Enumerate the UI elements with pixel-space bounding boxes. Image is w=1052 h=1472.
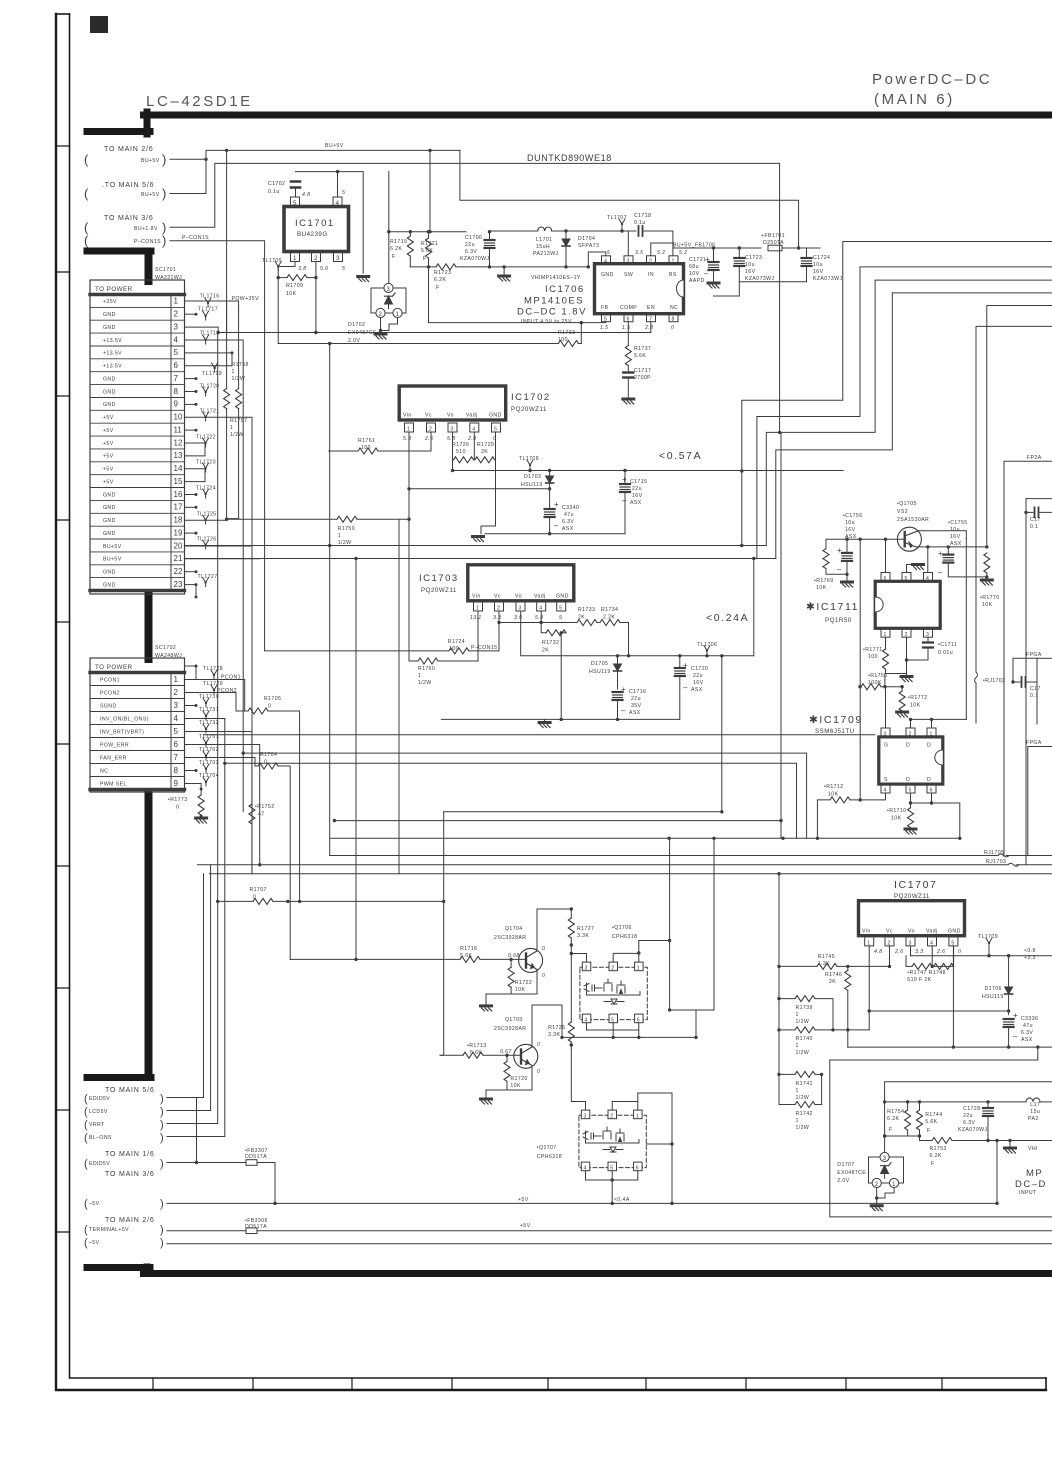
svg-text:R1734: R1734 — [601, 607, 618, 613]
svg-text:DD517A: DD517A — [245, 1154, 267, 1160]
corner black square — [90, 16, 108, 33]
svg-text:BU+5V: BU+5V — [103, 557, 122, 563]
svg-text:+5V: +5V — [520, 1223, 531, 1229]
svg-text:Vin: Vin — [862, 929, 871, 935]
svg-text:3: 3 — [627, 259, 630, 265]
svg-text:VS2: VS2 — [897, 509, 908, 515]
svg-text:TL1709: TL1709 — [978, 934, 998, 940]
svg-text:–5V: –5V — [89, 1240, 100, 1246]
wire Q1704 collector up — [537, 909, 571, 944]
svg-text:KZA073WJ: KZA073WJ — [745, 276, 774, 282]
Q1707 pin 2 — [608, 1110, 617, 1119]
svg-text:BU+5V: BU+5V — [141, 192, 160, 198]
svg-text:6: 6 — [174, 361, 179, 370]
svg-text:18: 18 — [174, 516, 183, 525]
svg-text:4: 4 — [336, 200, 340, 207]
svg-text:Q1703: Q1703 — [505, 1017, 523, 1023]
svg-text:•R1771: •R1771 — [863, 647, 883, 653]
capacitor C1755 10u 16V ASX — [938, 520, 987, 577]
svg-text:5: 5 — [342, 190, 345, 196]
svg-text:17: 17 — [174, 503, 183, 512]
resistor R1739 1 1/2W — [777, 996, 833, 1030]
svg-text:D1704: D1704 — [578, 236, 595, 242]
wire pin6 up to Q1705 base node — [885, 539, 887, 572]
svg-text:22u: 22u — [693, 673, 703, 679]
svg-text:5: 5 — [174, 727, 179, 736]
svg-text:BL–ONS: BL–ONS — [89, 1135, 112, 1141]
svg-text:INPUT 4.5V to 25V: INPUT 4.5V to 25V — [521, 319, 572, 325]
svg-text:AAPD: AAPD — [689, 278, 705, 284]
-5V entry — [84, 1198, 164, 1210]
wire pin3 gate up to R1756 node — [885, 687, 887, 728]
svg-text:3.3K: 3.3K — [577, 933, 589, 939]
vertical x398.7 long — [398, 519, 400, 874]
ground under C1728 — [1009, 1141, 1011, 1149]
svg-text:INV_BRT(VBRT): INV_BRT(VBRT) — [100, 729, 144, 735]
svg-text:✱IC1711: ✱IC1711 — [806, 601, 859, 613]
svg-text:+5V: +5V — [518, 1197, 529, 1203]
svg-text:2K: 2K — [481, 449, 488, 455]
wire x860 down to R1712 and pin4 — [860, 742, 885, 800]
svg-text:10K: 10K — [828, 792, 839, 798]
svg-text:2.2K: 2.2K — [603, 615, 615, 621]
svg-text:TL1731: TL1731 — [199, 707, 219, 713]
row16 stub — [185, 494, 197, 496]
IC1709 pin 6 — [927, 784, 936, 793]
svg-text:1.5: 1.5 — [600, 325, 608, 331]
svg-text:0: 0 — [176, 805, 179, 811]
svg-text:2.0V: 2.0V — [837, 1178, 849, 1184]
IC1701 pin 5 — [291, 197, 300, 207]
svg-text:1: 1 — [418, 673, 421, 679]
svg-text:5: 5 — [559, 606, 562, 612]
IC1701 box — [284, 190, 349, 272]
row23 stub — [185, 584, 197, 586]
IC1702 pin 3 — [448, 423, 457, 432]
IC1709 box — [879, 728, 943, 794]
svg-text:C17: C17 — [1030, 686, 1041, 692]
resistor R1745 1.3K — [777, 872, 891, 999]
svg-text:TO MAIN 1/6: TO MAIN 1/6 — [105, 1151, 155, 1158]
svg-text:D: D — [927, 777, 931, 783]
svg-text:EN: EN — [647, 305, 655, 311]
gnd rail under IC1703 — [441, 718, 679, 720]
svg-text:–: – — [683, 683, 688, 692]
connector bar above TO POWER SC1701 — [145, 252, 153, 281]
IC1709 pin 5 — [906, 784, 915, 793]
svg-text:MP: MP — [1026, 1168, 1043, 1179]
svg-text:10K: 10K — [816, 585, 827, 591]
svg-text:3.3: 3.3 — [493, 615, 501, 621]
wire D1703 return rail y488.8 — [409, 488, 550, 490]
svg-text:Vadj: Vadj — [466, 413, 478, 419]
svg-text:–: – — [704, 269, 709, 278]
svg-text:TL1726: TL1726 — [197, 537, 217, 543]
svg-text:R1722: R1722 — [515, 980, 532, 986]
svg-text:Vo: Vo — [447, 413, 454, 419]
svg-text:COMP: COMP — [620, 305, 637, 311]
svg-text:): ) — [160, 1132, 164, 1144]
wire Q1705 base rail — [826, 538, 905, 540]
wire Q1707 drain rail right — [638, 1093, 672, 1203]
svg-text:TL1730: TL1730 — [199, 694, 219, 700]
wire NC row8 — [185, 770, 197, 772]
wire Q1706 pin2/pin1 top rail — [613, 941, 639, 963]
IC1701 pin 4 — [333, 197, 342, 207]
row4 +13.5V wire — [185, 340, 244, 812]
svg-text:ASX: ASX — [629, 710, 641, 716]
svg-text:2: 2 — [174, 310, 179, 319]
IC1702 box — [399, 386, 550, 442]
svg-text:•R1713: •R1713 — [467, 1043, 487, 1049]
bus1 3.3V line — [185, 545, 767, 547]
IC1706 pin 2 IN — [647, 256, 656, 264]
svg-text:1: 1 — [672, 259, 675, 265]
svg-text:8: 8 — [672, 316, 675, 322]
svg-text:HSU119: HSU119 — [521, 482, 543, 488]
svg-text:6.2K: 6.2K — [887, 1116, 899, 1122]
Q1707 internal MOSFETs — [583, 1131, 588, 1140]
wire P-CON1S down to R1724 — [170, 241, 265, 651]
svg-text:SFPA73: SFPA73 — [578, 243, 599, 249]
IC1707 pin 5 — [949, 937, 958, 946]
svg-text:+5V: +5V — [103, 415, 114, 421]
resistor R1704 0 — [255, 752, 290, 901]
svg-text:D1705: D1705 — [591, 661, 608, 667]
connector TO MAIN 2/6 (bottom) — [84, 1217, 164, 1249]
Q1706 pin 1 — [635, 962, 644, 971]
svg-text:TL1702: TL1702 — [199, 747, 219, 753]
svg-text:INV_ON(BL_ONS): INV_ON(BL_ONS) — [100, 716, 149, 722]
CPH6318 module Q1706 — [580, 962, 647, 1023]
FB sense line — [429, 267, 606, 323]
svg-text:<0.8: <0.8 — [1024, 948, 1036, 954]
resistor R1760 1 1/2W — [409, 519, 478, 686]
wire Q1706 top to bus — [639, 940, 670, 942]
svg-text:3: 3 — [519, 606, 522, 612]
svg-text:+13.5V: +13.5V — [103, 351, 122, 357]
wire Q1706 pin3 gate left — [571, 954, 586, 963]
svg-text:SGND: SGND — [100, 703, 117, 709]
svg-text:47u: 47u — [564, 512, 574, 518]
svg-text:TERMINAL+5V: TERMINAL+5V — [89, 1227, 129, 1233]
transistor Q1703 2SC3928AR — [494, 1017, 540, 1075]
capacitor C1756 10u 16V ASX — [837, 513, 863, 574]
svg-text:GND: GND — [103, 389, 116, 395]
svg-text:0.1: 0.1 — [1030, 524, 1038, 530]
svg-text:16V: 16V — [693, 680, 704, 686]
svg-text:D1703: D1703 — [524, 474, 541, 480]
wire pin4 Vadj down — [540, 611, 542, 623]
svg-text:1.5: 1.5 — [622, 325, 630, 331]
svg-text:R1733: R1733 — [558, 330, 575, 336]
resistor R1757 1 1/2W — [227, 310, 248, 519]
svg-text:IC1701: IC1701 — [295, 218, 335, 229]
diode D1707 EX0487CE — [837, 1152, 903, 1210]
svg-text:Vc: Vc — [886, 929, 893, 935]
svg-text:13: 13 — [174, 451, 183, 460]
svg-text:F: F — [931, 1161, 935, 1167]
IC1711 pin 1 — [881, 628, 890, 637]
svg-text:PQ20WZ11: PQ20WZ11 — [511, 406, 547, 413]
Q1706 internal MOSFETs — [584, 983, 589, 992]
svg-text:10V: 10V — [689, 271, 700, 277]
resistors R1747 510 F R1748 2K — [906, 946, 954, 983]
wire IN pin2 up — [651, 243, 673, 256]
resistor R1754 6.2K F — [887, 1102, 919, 1136]
svg-text:3.5: 3.5 — [635, 250, 643, 256]
svg-text:KZA073WJ: KZA073WJ — [813, 276, 842, 282]
IC1706 pin 1 BS — [669, 256, 678, 264]
svg-text:F: F — [927, 1128, 931, 1134]
svg-text:•Q1706: •Q1706 — [612, 925, 632, 931]
svg-text:GND: GND — [103, 492, 116, 498]
svg-text:TO MAIN 2/6: TO MAIN 2/6 — [105, 1217, 155, 1224]
svg-text:PWM SEL: PWM SEL — [100, 781, 127, 787]
wire Vadj rail right — [953, 946, 955, 967]
svg-text:2700P: 2700P — [634, 375, 651, 381]
svg-text:7: 7 — [174, 753, 179, 762]
svg-text:GND: GND — [103, 570, 116, 576]
svg-text:PQ1R50: PQ1R50 — [825, 617, 852, 624]
svg-text:R1720: R1720 — [510, 1076, 527, 1082]
svg-text:•Q1707: •Q1707 — [537, 1145, 557, 1151]
IC1703 pin 1 — [474, 602, 483, 611]
S3 lower vertical x783 — [780, 432, 782, 838]
resistor R1761 100 — [329, 344, 431, 856]
row19 stub — [185, 532, 197, 534]
svg-text:1: 1 — [174, 675, 179, 684]
bus staircase S2 — [757, 267, 1052, 559]
vertical x355.7 long — [355, 559, 357, 960]
svg-text:): ) — [160, 1224, 164, 1236]
svg-text:D1702: D1702 — [348, 322, 365, 328]
ground Q1703 emitter — [486, 1040, 532, 1090]
svg-text:0.68: 0.68 — [508, 953, 520, 959]
IC1707 pin 4 — [928, 937, 937, 946]
svg-text:DD517A: DD517A — [245, 1224, 267, 1230]
svg-text:PCON2: PCON2 — [217, 688, 237, 694]
svg-text:VHI: VHI — [1028, 1146, 1038, 1152]
capacitor C1723 10u 16V KZA073WJ — [734, 246, 774, 282]
svg-text:20: 20 — [174, 541, 183, 550]
long horizontal y838.8 — [330, 837, 960, 839]
Q1706 pin 6 — [635, 1014, 644, 1023]
svg-text:10K: 10K — [510, 1083, 521, 1089]
svg-text:DC–D: DC–D — [1015, 1179, 1047, 1190]
wire Vin rail down IC1702 to IC1703 — [408, 519, 410, 544]
IC1703 pin 2 — [495, 602, 504, 611]
wire Q1705 collector to right and down — [918, 531, 966, 720]
svg-text:10u: 10u — [745, 262, 755, 268]
0.57A output line T-join — [625, 470, 742, 472]
bus2 staircase via x775.8 — [776, 293, 1052, 559]
svg-text:LC–42SD1E: LC–42SD1E — [146, 93, 253, 110]
resistor R1727 3.3K — [568, 909, 594, 1022]
svg-text:TL1723: TL1723 — [196, 460, 216, 466]
bottom border thick bar — [87, 1264, 150, 1271]
svg-text:(: ( — [84, 1198, 88, 1210]
svg-text:+35V: +35V — [103, 299, 117, 305]
svg-text:2: 2 — [649, 259, 652, 265]
svg-text:TO MAIN 3/6: TO MAIN 3/6 — [105, 1171, 155, 1178]
capacitor C3336 47u 6.3V ASX — [1004, 1011, 1039, 1047]
wire FAN_ERR row7 — [185, 758, 256, 767]
svg-text:2.6: 2.6 — [894, 949, 903, 955]
svg-text:TL1722: TL1722 — [196, 435, 216, 441]
long horizontal y734.8 — [204, 734, 876, 736]
wire POW+35V bus down to R1759 line — [226, 518, 228, 521]
Q1707 pin 3 — [581, 1110, 590, 1119]
svg-text:TL1725: TL1725 — [197, 512, 217, 518]
svg-text:BU4239G: BU4239G — [297, 231, 328, 238]
wire pin6 rail down right — [959, 803, 961, 839]
svg-text:1: 1 — [796, 1043, 799, 1049]
svg-text:1: 1 — [796, 1012, 799, 1018]
wire pin1 up to collector line — [932, 719, 967, 728]
svg-text:C1723: C1723 — [745, 255, 762, 261]
IC1711 pin 6 — [881, 573, 890, 582]
diode D1703 HSU119 — [521, 469, 554, 509]
svg-text:R1746: R1746 — [825, 972, 842, 978]
IC1709 pin 2 — [906, 728, 915, 737]
svg-text:22: 22 — [174, 567, 183, 576]
svg-text:R1725: R1725 — [548, 1025, 565, 1031]
top rail to L1701 and beyond — [490, 230, 606, 232]
resistor R1709 — [277, 275, 318, 297]
svg-text:15uH: 15uH — [536, 244, 550, 250]
resistor R1733 100 — [278, 330, 581, 347]
Q1706 pin 3 — [582, 962, 591, 971]
svg-text:0.01u: 0.01u — [938, 650, 953, 656]
svg-text:(: ( — [84, 1237, 88, 1249]
wire Q1706 bottom pins rail — [587, 1023, 639, 1038]
svg-text:DC–DC 1.8V: DC–DC 1.8V — [517, 307, 587, 318]
svg-text:5: 5 — [293, 200, 297, 207]
svg-text:3: 3 — [884, 732, 887, 738]
svg-text:(: ( — [84, 1224, 88, 1236]
wire PCON1 row1 — [185, 680, 245, 712]
svg-text:R1724: R1724 — [448, 639, 465, 645]
svg-text:35V: 35V — [631, 703, 642, 709]
wire PWM SEL row9 — [185, 784, 202, 796]
svg-text:2: 2 — [610, 1113, 613, 1119]
svg-text:TL1716: TL1716 — [200, 294, 220, 300]
svg-text:R1707: R1707 — [250, 887, 267, 893]
capacitor C1718 0.1u — [606, 213, 673, 236]
svg-text:BU+5V: BU+5V — [103, 544, 122, 550]
wire R1771 junction down — [884, 674, 886, 687]
svg-text:19: 19 — [174, 528, 183, 537]
resistor R1724 100 — [265, 639, 499, 654]
Q1706 pin 2 — [609, 962, 618, 971]
connector TO MAIN 5/6 (top) — [84, 182, 166, 201]
svg-text:.TO MAIN 5/6: .TO MAIN 5/6 — [102, 182, 154, 189]
svg-text:5.2: 5.2 — [679, 250, 687, 256]
riser to bus2 — [753, 559, 755, 656]
svg-text:100: 100 — [868, 654, 878, 660]
IC1709 pin 1 — [927, 728, 936, 737]
svg-text:–: – — [1013, 1032, 1018, 1041]
svg-text:FPGA: FPGA — [1026, 740, 1042, 746]
svg-text:5: 5 — [342, 266, 345, 272]
svg-text:•C1755: •C1755 — [948, 520, 968, 526]
IC1702 pin 2 — [427, 423, 436, 432]
svg-text:4: 4 — [174, 714, 179, 723]
svg-text:5.8: 5.8 — [403, 436, 411, 442]
svg-text:9: 9 — [174, 779, 179, 788]
Q1707 pin 6 — [634, 1162, 643, 1171]
+5V long line y1203.4 — [170, 1202, 997, 1204]
svg-text:NC: NC — [100, 768, 108, 774]
svg-text:+: + — [554, 500, 559, 509]
vertical x860 long — [859, 539, 861, 742]
svg-text:1: 1 — [232, 369, 235, 375]
svg-text:14: 14 — [174, 464, 183, 473]
wire pin4 up to emitter rail — [927, 547, 929, 573]
svg-text:6.3V: 6.3V — [465, 249, 477, 255]
IC1702 pin 4 — [470, 423, 479, 432]
svg-text:R1732: R1732 — [542, 640, 559, 646]
wire pin1 Vin down to R1760 line — [477, 611, 479, 661]
svg-text:TL1729: TL1729 — [203, 681, 223, 687]
svg-text:TL1708: TL1708 — [519, 456, 539, 462]
svg-text:0.1u: 0.1u — [634, 220, 646, 226]
wire pin2 down then left to TL1718 — [218, 262, 651, 333]
horizontal y811.8 — [444, 811, 722, 813]
svg-text:L1701: L1701 — [536, 237, 552, 243]
inductor L1711 15uH PA2.. — [1026, 1098, 1052, 1122]
resistor R1746 2K — [825, 966, 851, 1047]
resistor R1741 1 1/2W — [777, 1071, 823, 1104]
svg-text:9: 9 — [174, 400, 179, 409]
row18 wire join R1759 — [185, 519, 227, 520]
svg-text:C1718: C1718 — [634, 213, 651, 219]
svg-text:2.8: 2.8 — [644, 325, 653, 331]
IC1711 box — [875, 573, 940, 638]
svg-text:TO POWER: TO POWER — [95, 664, 133, 671]
svg-text:+13.5V: +13.5V — [103, 364, 122, 370]
svg-text:22u: 22u — [465, 242, 475, 248]
svg-text:PA213WJ: PA213WJ — [533, 251, 558, 257]
svg-text:2: 2 — [314, 255, 318, 262]
wire pin5 top to pin4 to right down — [296, 172, 364, 274]
connector TO MAIN 2/6 (top) — [84, 146, 166, 167]
svg-text:F: F — [889, 1127, 893, 1133]
svg-text:VHIMP1410ES–1Y: VHIMP1410ES–1Y — [531, 275, 581, 281]
wire top rail BU+5V to R1719/R1721 — [389, 150, 466, 231]
svg-text:EX0487CE: EX0487CE — [348, 330, 377, 336]
svg-text:16V: 16V — [950, 534, 961, 540]
svg-text:C1720: C1720 — [691, 666, 708, 672]
IC1711 pin 2 — [902, 628, 911, 637]
svg-text:8: 8 — [174, 766, 179, 775]
svg-text:FB: FB — [601, 305, 609, 311]
long horizontal y872 — [210, 873, 1052, 875]
top border thick bar — [87, 128, 150, 135]
svg-text:VRRT: VRRT — [89, 1122, 105, 1128]
wire Q1705 emitter rail — [916, 546, 987, 548]
svg-text:TL1724: TL1724 — [196, 486, 216, 492]
svg-text:GND: GND — [103, 377, 116, 383]
IC1703 box — [419, 565, 574, 621]
IC1707 pin 3 — [906, 937, 915, 946]
svg-text:S: S — [884, 777, 888, 783]
svg-text:•C1711: •C1711 — [938, 642, 957, 648]
resistor R1726 510 — [452, 432, 474, 463]
resistor R1769 10K — [814, 539, 853, 591]
resistor R1713 5.6K — [440, 1043, 521, 1058]
